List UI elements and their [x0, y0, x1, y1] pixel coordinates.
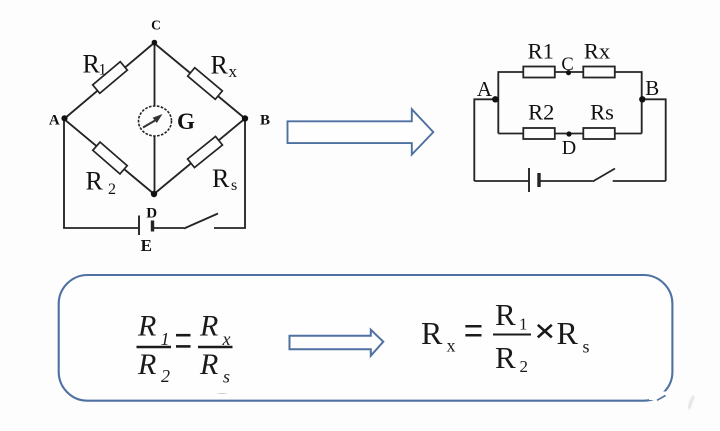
svg-text:R: R	[495, 340, 516, 375]
resistor R2 (right circuit)	[523, 128, 555, 139]
wire C-B	[154, 43, 245, 119]
switch blade (right circuit)	[593, 169, 615, 182]
svg-text:Rs: Rs	[590, 100, 614, 125]
svg-text:R2: R2	[528, 100, 554, 125]
svg-text:D: D	[146, 206, 157, 222]
svg-text:1: 1	[519, 315, 528, 334]
resistor R1 (A-C arm)	[93, 62, 128, 94]
bottom rail right	[613, 180, 666, 182]
box shadow	[75, 403, 655, 405]
wire Rs to B riser	[615, 133, 642, 135]
battery long plate (right circuit)	[528, 168, 530, 192]
resistor Rx (C-B arm)	[188, 68, 223, 100]
resistor Rx (right circuit)	[583, 67, 615, 78]
wire A to outer loop	[474, 99, 496, 181]
svg-text:A: A	[49, 113, 60, 129]
wire B down to bottom rail	[214, 119, 245, 229]
svg-text:R: R	[199, 310, 218, 343]
battery E long plate	[138, 216, 140, 236]
fraction bar left	[137, 346, 172, 349]
label Rx	[211, 51, 238, 82]
node B (right circuit)	[639, 96, 645, 102]
node A (right circuit)	[492, 96, 498, 102]
svg-text:R: R	[211, 51, 229, 80]
fraction bar	[493, 333, 531, 335]
formula Rx = R1/R2 x Rs (upright)	[421, 297, 590, 376]
svg-text:B: B	[260, 112, 270, 128]
svg-text:B: B	[645, 76, 659, 100]
svg-text:R: R	[199, 348, 218, 381]
wire D-B	[154, 119, 245, 195]
node A	[61, 115, 67, 121]
svg-text:R: R	[86, 167, 104, 196]
svg-text:s: s	[583, 337, 590, 357]
node D (right circuit)	[566, 131, 571, 136]
svg-text:2: 2	[520, 357, 529, 376]
fraction bar right	[198, 346, 233, 349]
wire A-D	[64, 119, 154, 194]
node C (right circuit)	[566, 70, 571, 75]
svg-text:Rx: Rx	[584, 39, 610, 64]
svg-text:s: s	[223, 367, 230, 387]
top rail with risers	[498, 72, 523, 134]
svg-text:R: R	[557, 315, 579, 351]
corner pen artifact	[649, 392, 671, 401]
node D	[151, 191, 157, 197]
svg-text:R: R	[421, 315, 443, 351]
svg-text:x: x	[447, 336, 456, 356]
wire battery to switch	[153, 227, 185, 229]
equals sign	[465, 325, 481, 328]
svg-text:R: R	[495, 297, 516, 332]
switch blade	[184, 214, 218, 229]
wire Rx to B riser	[615, 72, 642, 134]
wire A down to bottom rail	[64, 119, 138, 228]
small blue arrow (inside box)	[290, 330, 384, 356]
node C	[152, 40, 158, 46]
label R1	[83, 50, 107, 79]
svg-text:R: R	[137, 348, 156, 381]
battery short plate (right circuit)	[537, 173, 540, 187]
wire R1 to C	[555, 71, 584, 73]
rounded formula box	[59, 275, 673, 401]
resistor Rs (D-B arm)	[188, 136, 223, 167]
svg-text:G: G	[177, 109, 195, 134]
wire C to galvanometer	[154, 43, 156, 106]
svg-text:s: s	[231, 177, 237, 194]
resistor R2 (A-D arm)	[93, 142, 127, 174]
wire branch rail left	[498, 133, 523, 135]
svg-text:E: E	[141, 236, 152, 255]
arrow (bridge to equivalent circuit)	[288, 109, 434, 154]
svg-text:R: R	[212, 164, 230, 193]
label Rs	[212, 164, 237, 194]
svg-text:A: A	[477, 77, 493, 101]
svg-text:1: 1	[99, 62, 107, 79]
wire A-C	[64, 43, 154, 119]
node B	[242, 115, 248, 121]
formula R1/R2 = Rx/Rs (italic)	[137, 310, 233, 387]
svg-text:C: C	[151, 18, 161, 33]
bottom rail left	[474, 180, 528, 182]
equals sign	[176, 334, 191, 337]
svg-text:C: C	[561, 55, 573, 75]
wire R2 to D	[555, 133, 584, 135]
svg-text:R: R	[137, 310, 156, 343]
svg-text:D: D	[562, 137, 576, 159]
battery E short plate	[151, 221, 154, 232]
faint notch on bottom border	[218, 392, 226, 395]
svg-text:R1: R1	[528, 39, 554, 64]
wire B to outer loop	[642, 99, 666, 181]
galvanometer G	[139, 106, 172, 136]
resistor Rs (right circuit)	[583, 128, 615, 139]
multiply sign	[538, 325, 552, 338]
wire battery to switch	[539, 180, 593, 182]
wire galvanometer to D	[154, 136, 156, 194]
svg-text:x: x	[229, 62, 238, 81]
resistor R1 (right circuit)	[523, 67, 555, 78]
faint stray pen mark right of box	[689, 396, 694, 409]
svg-text:2: 2	[108, 181, 116, 198]
svg-text:2: 2	[161, 366, 170, 386]
label R2	[86, 167, 117, 199]
